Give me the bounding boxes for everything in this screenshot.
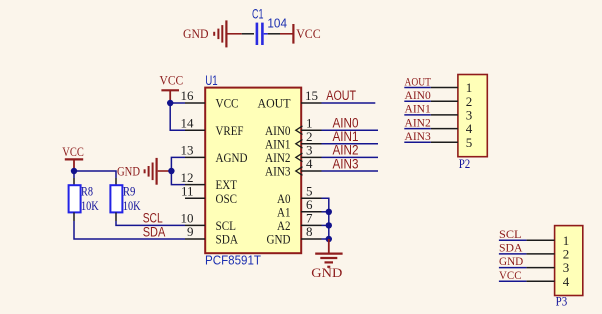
P3 pin 4 lead <box>526 280 554 282</box>
wire A0/A1/A2/GND tie bus <box>322 198 329 239</box>
svg-text:13: 13 <box>181 143 194 158</box>
svg-text:8: 8 <box>306 224 313 239</box>
svg-text:10K: 10K <box>81 199 99 213</box>
svg-text:15: 15 <box>305 88 318 103</box>
wire SDA (P3) <box>499 253 527 255</box>
wire SDA (R8 to pin 9) <box>74 221 185 239</box>
P2 pin 1 lead <box>431 87 458 89</box>
svg-text:GND: GND <box>311 265 342 280</box>
power port GND (left, bar style) <box>117 158 169 185</box>
svg-text:4: 4 <box>563 274 570 289</box>
svg-text:C1: C1 <box>252 5 264 21</box>
svg-text:VCC: VCC <box>499 268 522 282</box>
wire AIN0 (P2) <box>404 100 431 102</box>
pin 5 (A0) <box>277 183 322 205</box>
junction dot <box>168 168 174 174</box>
P2 pin 2 lead <box>431 100 458 102</box>
pin 12 (EXT) <box>181 170 238 192</box>
svg-text:9: 9 <box>187 224 194 239</box>
resistor R9 <box>110 178 122 221</box>
pin 2 (AIN1) <box>265 129 322 151</box>
wire VCC to R8 <box>73 171 75 178</box>
P3 pin 2 lead <box>526 253 554 255</box>
pin 6 (A1) <box>277 197 322 219</box>
wire AOUT <box>322 102 376 104</box>
svg-text:PCF8591T: PCF8591T <box>205 253 261 267</box>
wire AIN2 (P2) <box>404 128 431 130</box>
wire AIN1 (P2) <box>404 114 431 116</box>
wire VCC to pin 14 <box>170 103 185 130</box>
wire AIN0 <box>322 129 379 131</box>
wire AIN1 <box>322 143 379 145</box>
svg-text:SDA: SDA <box>499 241 523 255</box>
resistor R8 <box>69 178 81 221</box>
wire VCC (P3) <box>499 280 527 282</box>
P2 pin 5 lead <box>431 141 458 143</box>
wire AIN3 <box>322 170 379 172</box>
svg-text:P2: P2 <box>459 156 471 171</box>
svg-text:U1: U1 <box>205 72 218 88</box>
pin 8 (GND) <box>267 224 322 246</box>
svg-text:AOUT: AOUT <box>405 74 432 88</box>
pin 16 (VCC) <box>181 88 239 110</box>
wire <box>242 33 254 35</box>
svg-text:SCL: SCL <box>143 211 163 226</box>
svg-text:VREF: VREF <box>216 123 244 138</box>
P2 pin 4 lead <box>431 128 458 130</box>
junction dot <box>71 168 77 174</box>
svg-text:P3: P3 <box>556 293 568 308</box>
svg-text:AIN2: AIN2 <box>405 115 431 129</box>
P2 pin 3 lead <box>431 114 458 116</box>
svg-text:R9: R9 <box>123 185 135 199</box>
junction dot <box>167 100 173 106</box>
svg-text:VCC: VCC <box>62 145 84 159</box>
pin 1 (AIN0) <box>265 115 322 137</box>
power port GND (top) <box>183 20 242 47</box>
wire GND (P3) <box>499 267 527 269</box>
wire <box>268 33 280 35</box>
pin 4 (AIN3) <box>265 156 322 178</box>
svg-text:R8: R8 <box>81 185 93 199</box>
wire SCL (R9 to pin 10) <box>116 221 185 225</box>
connector P2 <box>458 75 487 157</box>
svg-text:AIN3: AIN3 <box>405 129 431 143</box>
pin 11 (OSC) <box>181 183 237 205</box>
power port VCC (top) <box>293 24 320 44</box>
svg-text:10K: 10K <box>123 199 141 213</box>
svg-text:104: 104 <box>267 15 287 30</box>
svg-text:4: 4 <box>306 156 313 171</box>
wire AIN3 (P2) <box>404 141 431 143</box>
svg-text:VCC: VCC <box>296 27 321 41</box>
svg-text:AIN1: AIN1 <box>405 102 431 116</box>
svg-text:5: 5 <box>466 135 473 150</box>
wire VCC to pin 16 <box>170 102 185 104</box>
svg-text:VCC: VCC <box>216 96 239 111</box>
IC U1 PCF8591T body <box>205 88 301 254</box>
svg-text:11: 11 <box>181 183 194 198</box>
svg-text:AIN3: AIN3 <box>265 164 291 179</box>
svg-text:AIN3: AIN3 <box>333 156 359 171</box>
pin 9 (SDA) <box>185 224 239 246</box>
svg-text:SDA: SDA <box>143 224 166 239</box>
svg-text:AOUT: AOUT <box>258 96 291 111</box>
wire AOUT (P2) <box>404 87 431 89</box>
junction dot <box>326 222 332 228</box>
svg-text:VCC: VCC <box>160 74 184 88</box>
junction dot <box>326 209 332 215</box>
pin 13 (AGND) <box>181 143 248 165</box>
svg-text:GND: GND <box>117 164 140 178</box>
pin 15 (AOUT) <box>258 88 322 110</box>
svg-text:14: 14 <box>181 115 195 130</box>
wire (power lead) <box>280 33 293 35</box>
svg-text:GND: GND <box>183 27 209 41</box>
svg-text:AIN0: AIN0 <box>405 88 431 102</box>
svg-text:SDA: SDA <box>216 232 239 247</box>
svg-text:GND: GND <box>267 232 291 247</box>
junction dot <box>326 236 332 242</box>
power port VCC (at R8/R9) <box>62 145 84 169</box>
svg-text:OSC: OSC <box>216 191 238 206</box>
svg-text:GND: GND <box>499 254 524 268</box>
wire VCC rail to R9 <box>74 171 116 178</box>
svg-text:AOUT: AOUT <box>326 88 356 103</box>
pin 7 (A2) <box>277 211 322 233</box>
wire AGND/EXT tie <box>171 157 185 184</box>
wire SCL (P3) <box>499 239 527 241</box>
ground symbol GND (power ground) <box>311 239 342 280</box>
pin 10 (SCL) <box>181 211 237 233</box>
wire AIN2 <box>322 156 379 158</box>
pin 14 (VREF) <box>181 115 244 137</box>
svg-text:AGND: AGND <box>216 150 248 165</box>
svg-text:16: 16 <box>181 88 195 103</box>
capacitor C1 <box>257 23 268 45</box>
P3 pin 3 lead <box>526 267 554 269</box>
svg-text:SCL: SCL <box>499 227 522 241</box>
P3 pin 1 lead <box>526 239 554 241</box>
pin 3 (AIN2) <box>265 143 322 165</box>
power port VCC (at IC pin 16) <box>160 74 184 101</box>
connector P3 <box>555 226 583 296</box>
